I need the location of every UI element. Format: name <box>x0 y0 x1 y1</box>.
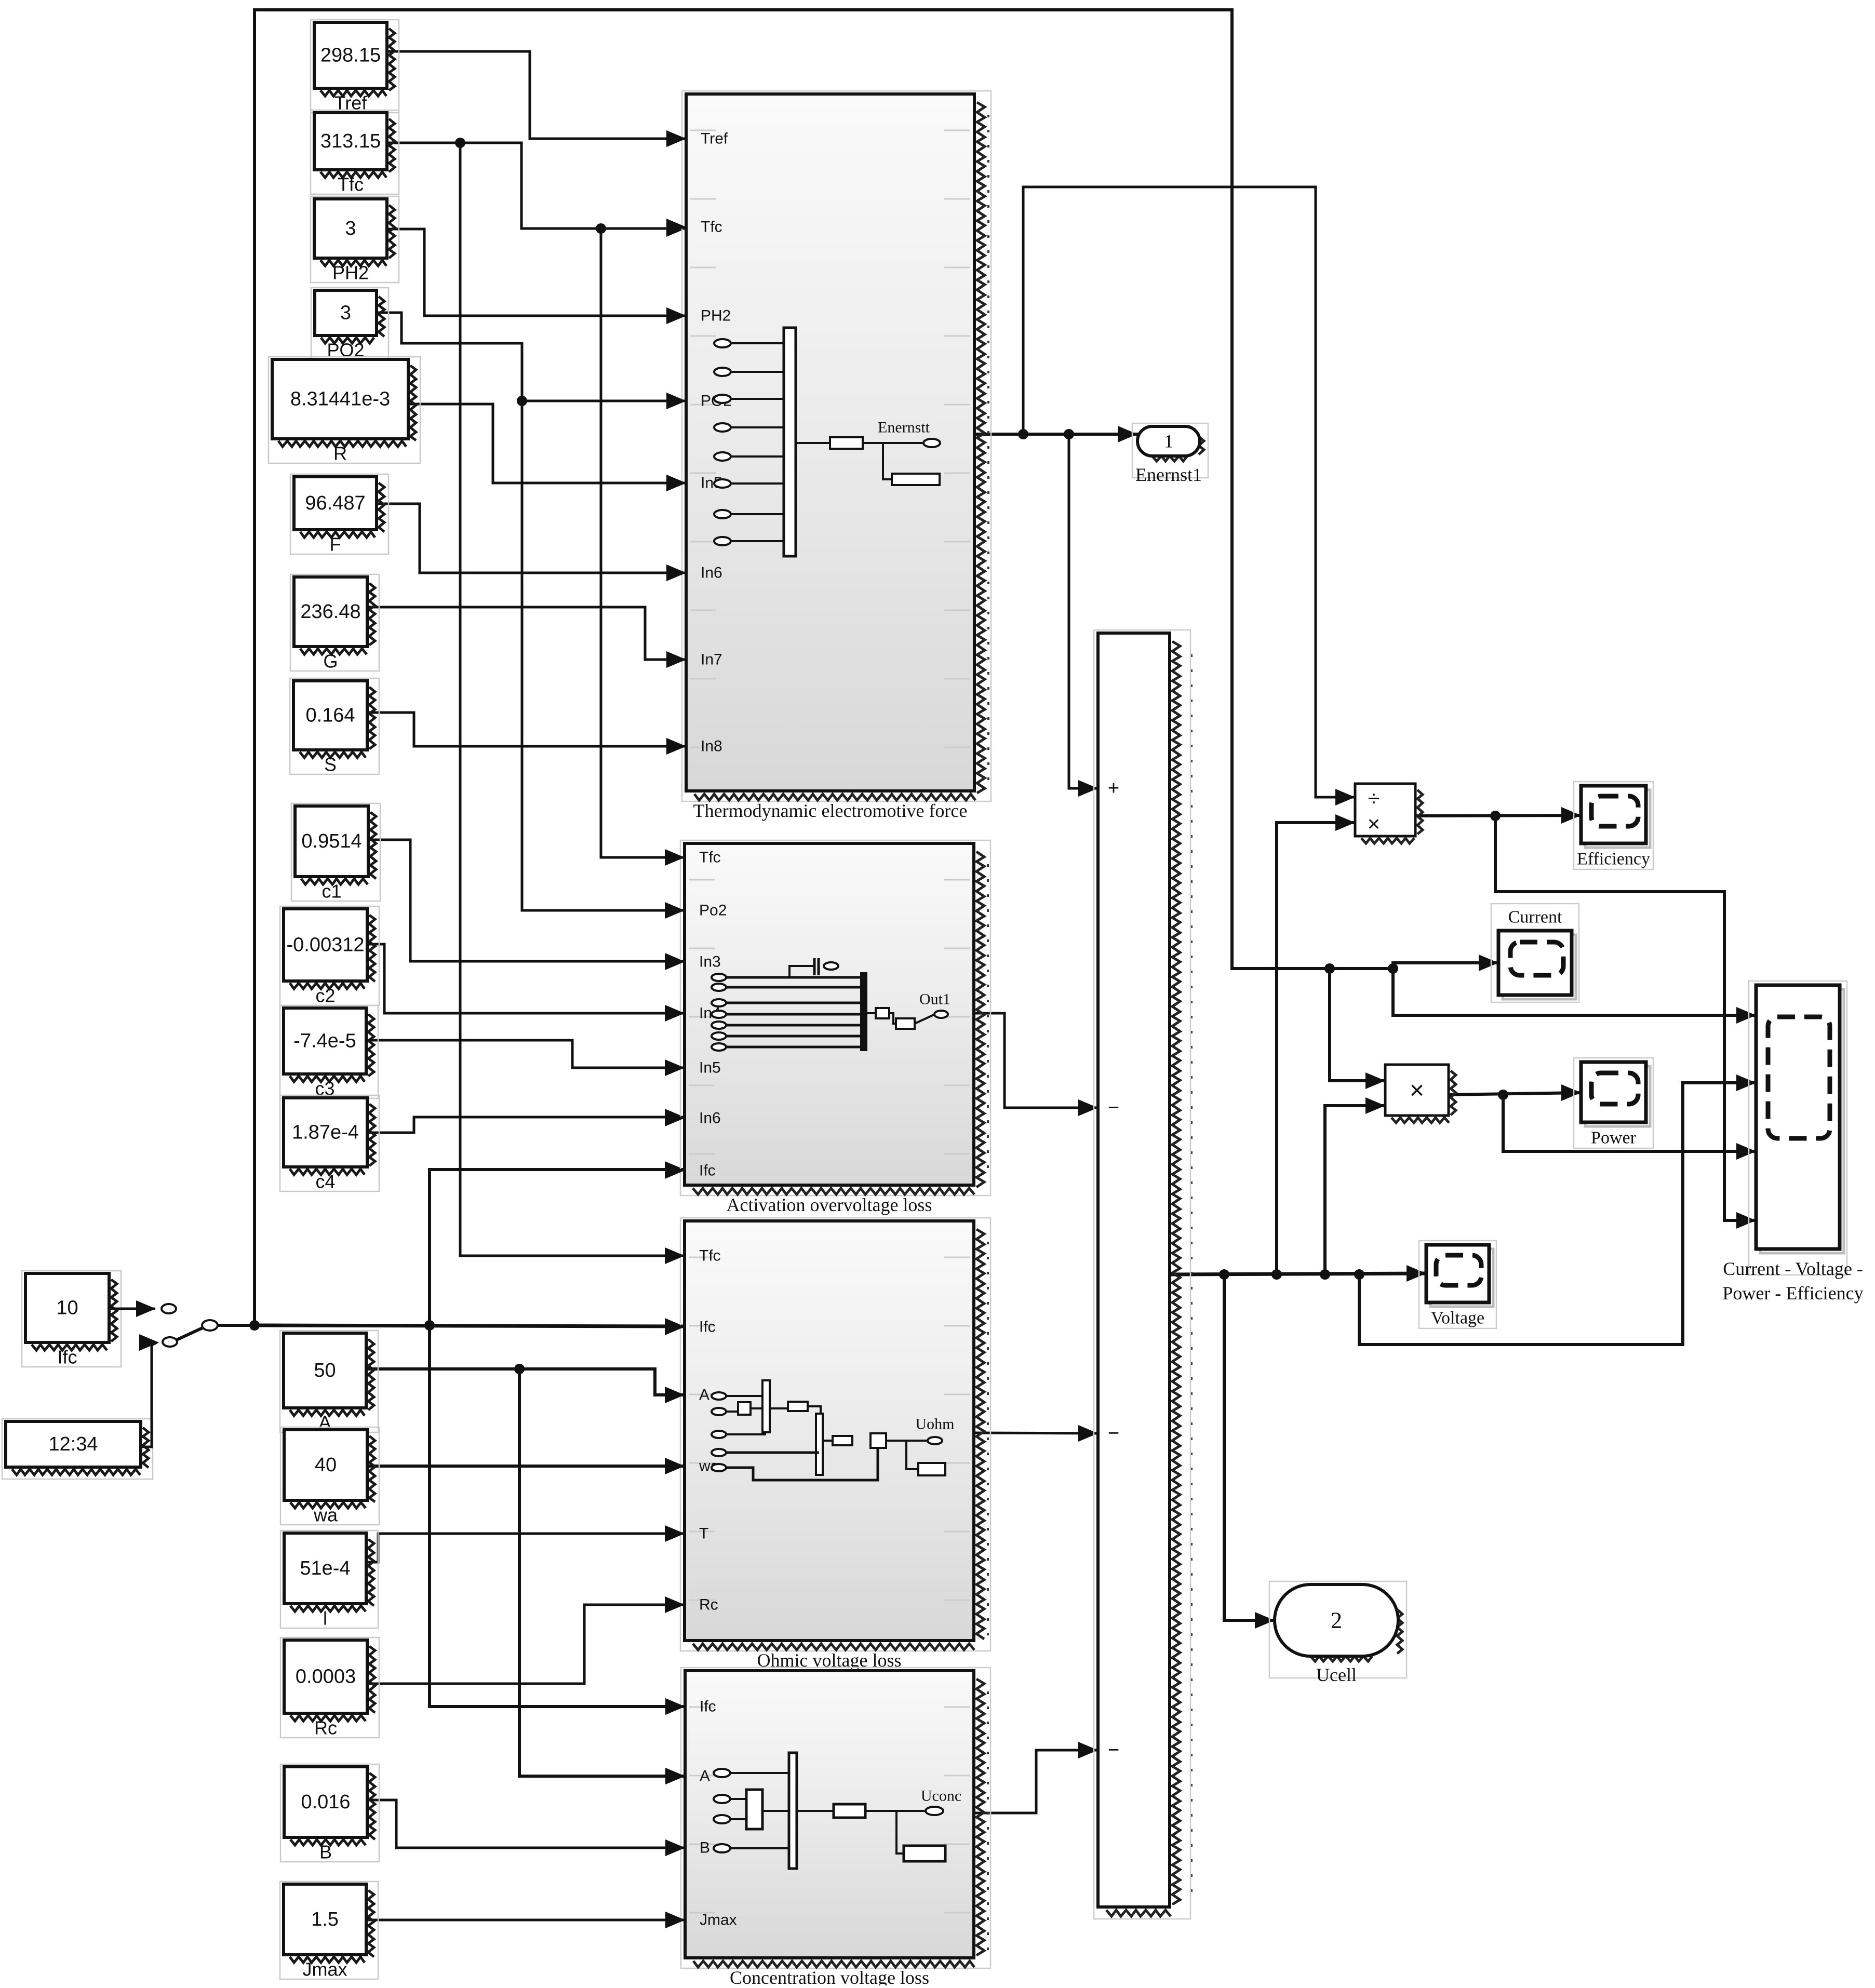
svg-text:Ucell: Ucell <box>1316 1664 1357 1685</box>
svg-text:In8: In8 <box>701 738 722 755</box>
svg-text:PH2: PH2 <box>701 307 731 325</box>
svg-text:0.0003: 0.0003 <box>296 1666 356 1688</box>
svg-text:−: − <box>1108 1422 1119 1444</box>
svg-text:0.016: 0.016 <box>301 1791 350 1813</box>
svg-text:Concentration voltage loss: Concentration voltage loss <box>730 1967 929 1985</box>
svg-text:Efficiency: Efficiency <box>1577 850 1650 869</box>
svg-text:×: × <box>1368 812 1381 836</box>
svg-text:-7.4e-5: -7.4e-5 <box>293 1030 356 1052</box>
svg-text:1.87e-4: 1.87e-4 <box>292 1122 359 1144</box>
svg-text:In3: In3 <box>699 953 721 971</box>
svg-text:Enernst1: Enernst1 <box>1135 464 1202 485</box>
svg-text:In5: In5 <box>699 1059 721 1077</box>
svg-text:Current: Current <box>1508 908 1562 927</box>
svg-text:0.164: 0.164 <box>305 705 355 727</box>
svg-text:0.9514: 0.9514 <box>301 830 361 852</box>
svg-text:96.487: 96.487 <box>305 492 365 514</box>
svg-text:Current - Voltage -: Current - Voltage - <box>1723 1258 1863 1279</box>
svg-text:51e-4: 51e-4 <box>300 1557 350 1579</box>
svg-text:wa: wa <box>313 1505 338 1526</box>
svg-text:−: − <box>1108 1097 1119 1119</box>
svg-text:50: 50 <box>314 1360 336 1381</box>
svg-text:c2: c2 <box>315 985 335 1006</box>
svg-text:−: − <box>1108 1739 1119 1761</box>
svg-text:Thermodynamic electromotive fo: Thermodynamic electromotive force <box>693 800 968 821</box>
svg-text:Power: Power <box>1591 1129 1637 1148</box>
svg-text:+: + <box>1108 777 1119 799</box>
svg-text:×: × <box>1410 1077 1424 1105</box>
svg-text:R: R <box>333 443 347 464</box>
svg-text:S: S <box>324 754 337 775</box>
svg-text:PH2: PH2 <box>332 262 369 284</box>
svg-text:Uconc: Uconc <box>921 1788 961 1805</box>
svg-text:8.31441e-3: 8.31441e-3 <box>290 388 390 410</box>
svg-text:236.48: 236.48 <box>300 601 360 623</box>
svg-text:12:34: 12:34 <box>48 1433 98 1455</box>
svg-text:A: A <box>699 1387 709 1404</box>
svg-text:3: 3 <box>345 218 356 239</box>
svg-text:Po2: Po2 <box>699 902 727 919</box>
svg-text:Tfc: Tfc <box>699 849 721 866</box>
svg-text:In6: In6 <box>701 565 722 582</box>
svg-text:Tfc: Tfc <box>699 1247 721 1265</box>
svg-text:Jmax: Jmax <box>700 1912 737 1929</box>
svg-text:10: 10 <box>56 1297 78 1319</box>
svg-text:G: G <box>323 651 338 672</box>
svg-text:In6: In6 <box>699 1110 721 1127</box>
svg-text:Activation overvoltage loss: Activation overvoltage loss <box>727 1194 932 1215</box>
svg-text:Rc: Rc <box>699 1596 718 1614</box>
svg-text:c3: c3 <box>315 1078 334 1099</box>
svg-text:Ifc: Ifc <box>700 1698 716 1715</box>
svg-text:c4: c4 <box>315 1171 335 1192</box>
svg-text:1.5: 1.5 <box>311 1909 339 1930</box>
svg-text:1: 1 <box>1164 431 1173 452</box>
svg-text:Tref: Tref <box>701 130 728 147</box>
svg-text:l: l <box>323 1608 327 1629</box>
svg-text:c1: c1 <box>322 881 341 902</box>
svg-text:298.15: 298.15 <box>320 45 381 66</box>
svg-text:Ifc: Ifc <box>699 1319 716 1336</box>
svg-text:Uohm: Uohm <box>916 1416 955 1433</box>
svg-text:-0.00312: -0.00312 <box>286 934 364 956</box>
svg-text:F: F <box>330 534 341 555</box>
svg-text:In7: In7 <box>701 651 722 668</box>
svg-text:÷: ÷ <box>1368 786 1380 811</box>
svg-text:2: 2 <box>1331 1608 1342 1633</box>
svg-text:Tfc: Tfc <box>338 174 364 195</box>
svg-text:Voltage: Voltage <box>1431 1309 1484 1328</box>
svg-text:B: B <box>700 1839 710 1857</box>
svg-text:B: B <box>319 1842 332 1863</box>
svg-text:T: T <box>699 1525 708 1542</box>
svg-text:Tfc: Tfc <box>701 219 722 236</box>
svg-text:Out1: Out1 <box>919 991 950 1008</box>
svg-text:Rc: Rc <box>314 1717 337 1739</box>
svg-text:A: A <box>700 1768 710 1785</box>
svg-text:Ifc: Ifc <box>57 1347 77 1368</box>
svg-text:Enernstt: Enernstt <box>878 419 930 436</box>
svg-text:Power - Efficiency: Power - Efficiency <box>1722 1283 1863 1304</box>
svg-text:40: 40 <box>315 1454 337 1476</box>
svg-text:Jmax: Jmax <box>302 1959 347 1980</box>
svg-text:PO2: PO2 <box>327 340 364 361</box>
svg-text:313.15: 313.15 <box>320 130 381 152</box>
svg-text:3: 3 <box>340 302 351 324</box>
svg-text:Ifc: Ifc <box>699 1162 716 1179</box>
